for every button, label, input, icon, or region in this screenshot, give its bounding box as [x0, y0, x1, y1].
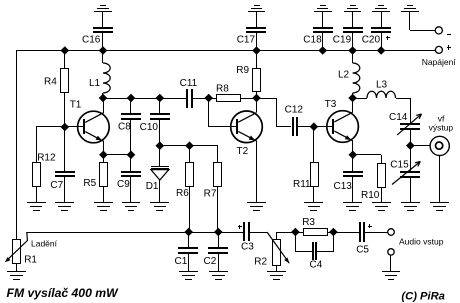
- svg-text:C16: C16: [82, 34, 101, 45]
- label Ladeni: [31, 238, 58, 248]
- svg-text:C20: C20: [362, 34, 381, 45]
- ground: [150, 203, 169, 211]
- wire left vertical from rail to R1: [16, 50, 18, 240]
- capacitor C17: [237, 12, 266, 50]
- transistor T2: [231, 111, 263, 157]
- inductor L1: [89, 50, 110, 98]
- resistor R6: [176, 146, 194, 232]
- node rail C17: [252, 46, 261, 55]
- title: [7, 286, 120, 300]
- ground: [179, 272, 198, 280]
- ground: [7, 272, 26, 280]
- wire T2 collector to C12: [256, 98, 291, 127]
- svg-text:R12: R12: [37, 152, 56, 163]
- wire T3 collector: [352, 98, 354, 112]
- resistor R4: [44, 50, 69, 127]
- node antenna: [406, 141, 415, 150]
- inductor L2: [338, 50, 360, 98]
- potentiometer R2: [254, 232, 295, 272]
- node rail C20: [377, 46, 386, 55]
- svg-text:T2: T2: [237, 146, 249, 157]
- wire T2 emitter: [256, 141, 258, 203]
- ground: [344, 6, 361, 12]
- svg-text:R4: R4: [44, 77, 57, 88]
- svg-text:C8: C8: [118, 122, 131, 133]
- capacitor C7: [50, 127, 75, 203]
- svg-text:C13: C13: [334, 181, 353, 192]
- svg-text:Audio vstup: Audio vstup: [399, 237, 444, 247]
- ground: [55, 203, 74, 211]
- ground: [27, 203, 46, 211]
- resistor R10: [361, 164, 386, 204]
- node rail C18: [318, 46, 327, 55]
- node T3 base: [310, 122, 319, 131]
- node rail C19: [348, 46, 357, 55]
- ground: [401, 203, 420, 211]
- credit: [401, 290, 445, 302]
- ground: [247, 203, 266, 211]
- node D1: [156, 141, 165, 150]
- node R6 top: [185, 141, 194, 150]
- connector rf output: [430, 136, 449, 203]
- ground: [372, 203, 391, 211]
- svg-text:Ladění: Ladění: [31, 238, 58, 248]
- svg-text:R5: R5: [83, 178, 96, 189]
- node T3 emitter: [349, 151, 358, 160]
- wire T1 emitter: [103, 141, 131, 155]
- svg-text:R1: R1: [24, 255, 37, 266]
- capacitor C19: [333, 12, 363, 50]
- svg-text:C11: C11: [180, 78, 198, 89]
- label Audio vstup: [399, 237, 444, 247]
- capacitor C3 electrolytic: [238, 222, 254, 253]
- svg-text:C9: C9: [117, 179, 130, 190]
- wire audio tuning bus: [27, 232, 243, 234]
- node T1 emitter: [99, 151, 108, 160]
- svg-text:C19: C19: [333, 34, 352, 45]
- svg-text:C15: C15: [390, 159, 409, 170]
- capacitor C11: [180, 78, 198, 108]
- ground: [314, 6, 332, 12]
- diode D1 varicap: [146, 146, 169, 203]
- svg-text:C7: C7: [50, 180, 63, 191]
- svg-text:C1: C1: [175, 256, 188, 267]
- node T3 collector: [348, 94, 357, 103]
- capacitor C2: [204, 232, 229, 272]
- resistor R5: [83, 155, 107, 203]
- transistor T3: [325, 99, 359, 142]
- label Napajeni: [422, 57, 457, 67]
- ground: [304, 203, 323, 211]
- ground: [430, 203, 449, 211]
- wire to rf connector: [410, 145, 430, 147]
- terminal minus: [435, 27, 451, 35]
- wire C5 to audio terminal: [365, 232, 388, 234]
- node C1: [184, 228, 193, 237]
- wire T2 collector: [256, 98, 258, 112]
- svg-text:C2: C2: [204, 256, 217, 267]
- wire emitter to R10: [353, 155, 382, 164]
- ground: [94, 6, 112, 12]
- node T2 base net: [204, 94, 213, 103]
- capacitor C18: [303, 12, 333, 50]
- svg-text:R3: R3: [302, 217, 315, 228]
- wire C3 to R2: [250, 232, 267, 234]
- resistor R11: [293, 127, 319, 203]
- svg-text:R6: R6: [176, 188, 189, 199]
- capacitor C20: [362, 12, 391, 50]
- ground: [209, 272, 228, 280]
- capacitor C10: [140, 98, 170, 146]
- ground: [122, 203, 140, 211]
- resistor R9: [236, 50, 260, 98]
- ground: [94, 203, 113, 211]
- node C8 top: [127, 94, 136, 103]
- svg-text:L2: L2: [338, 70, 350, 81]
- wire C12 to T3 base: [298, 126, 333, 128]
- svg-text:C17: C17: [237, 34, 256, 45]
- ground: [382, 272, 400, 280]
- svg-text:C10: C10: [140, 122, 159, 133]
- wire T1 base: [36, 126, 84, 128]
- node C2: [214, 228, 223, 237]
- svg-text:C5: C5: [356, 245, 369, 256]
- wire T3 emitter: [352, 141, 354, 155]
- svg-text:T1: T1: [70, 100, 82, 111]
- ground: [343, 203, 362, 211]
- capacitor C4: [295, 232, 334, 271]
- node C8 bottom: [127, 151, 136, 160]
- capacitor C8: [118, 98, 141, 155]
- ground: [401, 6, 419, 12]
- terminal audio ground: [388, 249, 394, 272]
- wire T2 base: [209, 98, 237, 127]
- inductor L3: [353, 80, 410, 99]
- wire R3 to C5: [333, 232, 359, 234]
- node T2 collector: [252, 94, 261, 103]
- svg-text:L1: L1: [89, 78, 101, 89]
- node C10 top: [156, 94, 165, 103]
- svg-text:FM vysílač 400 mW: FM vysílač 400 mW: [7, 286, 120, 300]
- svg-text:C12: C12: [285, 105, 304, 116]
- svg-text:C14: C14: [389, 112, 408, 123]
- label vf vystup: [429, 113, 454, 132]
- wire varicap bias line: [160, 146, 218, 163]
- capacitor C1: [175, 232, 199, 272]
- ground: [372, 6, 390, 12]
- svg-text:R8: R8: [216, 83, 229, 94]
- svg-text:T3: T3: [325, 99, 337, 110]
- wire V+ rail: [16, 50, 435, 52]
- capacitor C15 trimmer: [390, 146, 420, 203]
- node R3 right: [329, 228, 338, 237]
- resistor R8: [216, 83, 241, 101]
- svg-text:(C) PiRa: (C) PiRa: [401, 290, 445, 302]
- capacitor C16: [82, 12, 113, 50]
- svg-text:R10: R10: [361, 190, 380, 201]
- ground: [248, 6, 265, 12]
- node rail R4: [61, 46, 70, 55]
- svg-text:Napájení: Napájení: [422, 57, 457, 67]
- svg-text:R9: R9: [236, 65, 249, 76]
- capacitor C14 trimmer: [389, 98, 422, 146]
- wire collector line T1: [103, 98, 186, 100]
- resistor R12: [33, 127, 56, 203]
- capacitor C5 electrolytic: [356, 222, 372, 256]
- svg-text:výstup: výstup: [429, 123, 454, 133]
- transistor T1: [70, 100, 110, 143]
- terminal plus: [435, 45, 451, 53]
- node rail C16: [99, 46, 108, 55]
- node L1 collector: [99, 94, 108, 103]
- node T1 base: [61, 123, 70, 132]
- potentiometer R1 tuning: [5, 232, 38, 272]
- wire R8 to collector node: [240, 98, 256, 100]
- resistor R3: [295, 217, 333, 236]
- ground: [267, 272, 286, 280]
- svg-text:R11: R11: [293, 179, 311, 190]
- svg-text:C4: C4: [310, 260, 323, 271]
- wire negative terminal: [410, 12, 436, 31]
- svg-text:L3: L3: [376, 80, 388, 91]
- capacitor C12: [285, 105, 304, 136]
- svg-text:R7: R7: [204, 189, 217, 200]
- svg-text:C3: C3: [241, 242, 254, 253]
- wire C11 to R8: [193, 98, 216, 100]
- svg-text:R2: R2: [254, 256, 267, 267]
- terminal audio input: [388, 229, 395, 236]
- capacitor C13: [334, 155, 364, 203]
- svg-text:D1: D1: [146, 181, 159, 192]
- capacitor C9: [117, 155, 141, 203]
- wire T1 collector: [103, 98, 105, 113]
- node R3 left: [291, 228, 300, 237]
- svg-text:C18: C18: [303, 34, 322, 45]
- resistor R7: [204, 163, 222, 233]
